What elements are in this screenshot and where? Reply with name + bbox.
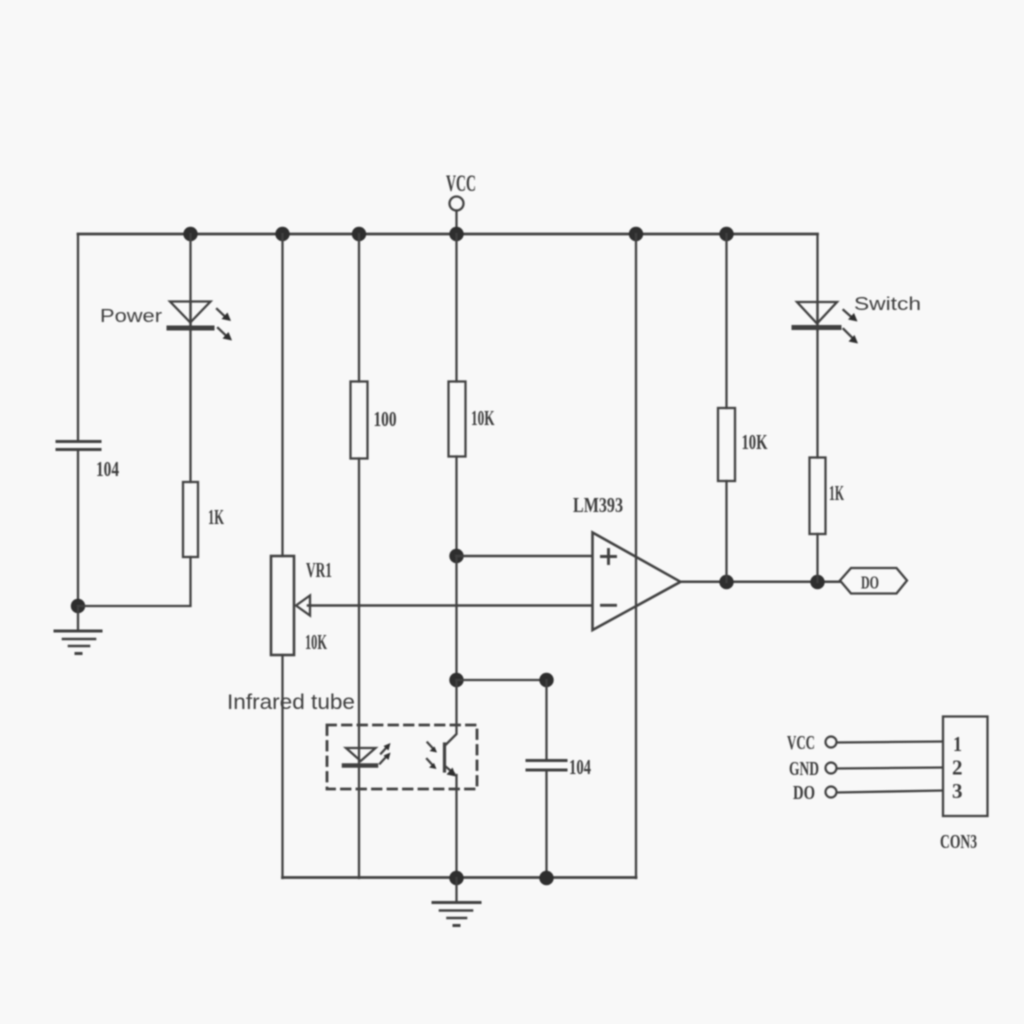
svg-text:Power: Power <box>100 306 162 326</box>
resistor 10K (mid) <box>449 382 495 457</box>
wire collector node to cap <box>457 679 547 681</box>
potentiometer VR1 10K <box>271 556 332 655</box>
resistor 10K (right) <box>718 408 768 481</box>
svg-text:GND: GND <box>789 758 819 780</box>
wire pin1 <box>837 742 942 743</box>
wire power-led to R 1K <box>189 303 191 482</box>
svg-text:VCC: VCC <box>787 732 815 754</box>
wire R10K(right) bottom <box>725 481 727 582</box>
junction dot left ground node <box>71 599 85 613</box>
ground (bottom center) <box>433 878 480 926</box>
port DO flag <box>840 568 907 594</box>
junction dot output x817 <box>810 575 824 589</box>
wire pin2 <box>837 768 942 769</box>
net VCC terminal <box>446 171 476 211</box>
ground (left) <box>55 606 101 654</box>
LED infrared emitter <box>344 743 391 766</box>
wire R1K(right) bottom <box>816 534 818 582</box>
LED D2 Switch <box>794 302 858 344</box>
connector CON3 <box>940 717 988 854</box>
wire R10K(mid) branch top <box>455 234 457 382</box>
junction dot cap top <box>539 673 553 687</box>
junction dot plus node <box>449 549 463 563</box>
op-amp U1 LM393 <box>573 493 681 630</box>
wire R10K to plus node <box>455 457 457 557</box>
svg-text:100: 100 <box>374 407 397 431</box>
svg-text:10K: 10K <box>305 630 327 654</box>
junction dot bottom x546 <box>539 871 553 885</box>
wire left branch upper <box>77 234 79 440</box>
resistor 1K (left) <box>183 482 224 557</box>
svg-text:1K: 1K <box>829 481 844 505</box>
wire LM393 mid vertical <box>635 234 637 878</box>
svg-text:LM393: LM393 <box>573 493 623 517</box>
junction dot rail x190 <box>183 227 197 241</box>
junction dot bottom x456 <box>449 871 463 885</box>
wire VCC stub <box>455 211 457 235</box>
wire bottom rail <box>283 876 637 879</box>
wire minus input from VR1 wiper <box>308 604 592 607</box>
junction dot rail x726 <box>719 227 733 241</box>
pin VCC circle <box>826 737 837 748</box>
wire top power rail <box>78 233 818 236</box>
svg-text:104: 104 <box>96 457 119 481</box>
svg-text:Infrared tube: Infrared tube <box>227 691 355 714</box>
wire VR1 bottom <box>281 655 283 878</box>
resistor 1K (right) <box>810 458 845 535</box>
wire left branch lower <box>77 451 79 607</box>
wire R1K bottom <box>78 557 191 606</box>
svg-text:DO: DO <box>861 573 879 593</box>
junction dot rail x636 <box>629 227 643 241</box>
junction dot collector node <box>449 673 463 687</box>
LED D1 Power <box>169 302 232 341</box>
wire pin3 <box>837 791 942 793</box>
svg-text:DO: DO <box>793 782 815 804</box>
pin GND circle <box>826 763 837 774</box>
svg-text:1: 1 <box>953 732 962 756</box>
resistor 100 <box>351 382 397 459</box>
wire R100 to IR led <box>358 459 360 767</box>
wire plus input <box>457 555 593 558</box>
junction dot rail x359 <box>352 227 366 241</box>
junction dot rail x456 <box>449 227 463 241</box>
capacitor 104 (left) <box>57 442 119 482</box>
svg-text:10K: 10K <box>471 406 495 430</box>
wire power-led branch top <box>189 234 191 330</box>
svg-text:104: 104 <box>569 755 591 779</box>
svg-text:1K: 1K <box>208 505 224 529</box>
svg-text:VR1: VR1 <box>306 558 332 582</box>
svg-text:3: 3 <box>952 779 963 803</box>
svg-text:VCC: VCC <box>446 171 476 196</box>
wire VR1 branch top <box>281 234 283 556</box>
wire switch-led branch top <box>816 234 818 330</box>
infrared tube dashed box <box>327 725 477 789</box>
wire R10K(right) branch top <box>725 234 727 408</box>
junction dot rail x282 <box>275 227 289 241</box>
svg-text:Switch: Switch <box>854 294 921 314</box>
svg-text:10K: 10K <box>742 430 768 454</box>
junction dot output x726 <box>719 575 733 589</box>
wire plus node down <box>455 556 457 680</box>
wire IR led bottom <box>358 766 360 878</box>
capacitor 104 (right) <box>527 680 591 878</box>
svg-text:2: 2 <box>952 756 963 780</box>
pin DO circle <box>826 787 837 798</box>
wire switch-led to R1K <box>816 302 818 458</box>
wire emitter to bottom rail <box>455 775 457 878</box>
svg-text:CON3: CON3 <box>940 831 977 853</box>
phototransistor Q1 <box>427 680 457 777</box>
wire R100 branch top <box>358 234 360 382</box>
wire op-amp output <box>680 581 840 584</box>
